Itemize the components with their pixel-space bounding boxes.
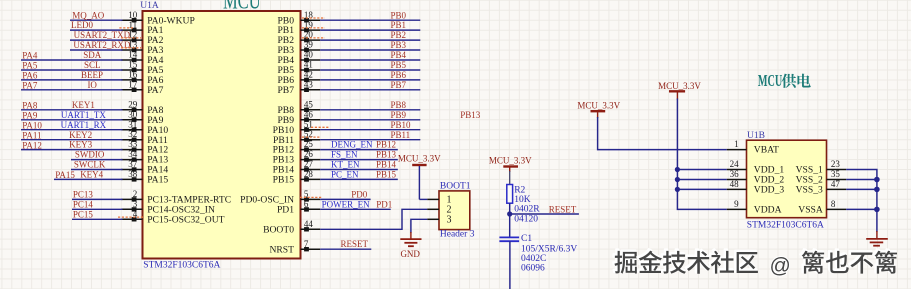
svg-text:MCU_3.3V: MCU_3.3V [658,81,701,91]
svg-text:STM32F103C6T6A: STM32F103C6T6A [747,221,824,231]
U1A pin 29 (PA8) [121,109,142,111]
svg-text:20: 20 [304,30,314,40]
wire + net label RESET (R2/C1) [510,213,579,215]
svg-text:BEEP: BEEP [81,70,103,80]
svg-text:PA15: PA15 [147,175,168,186]
svg-text:Header 3: Header 3 [440,229,475,239]
svg-text:MCU_3.3V: MCU_3.3V [489,156,532,166]
wire + net label PB3 [320,49,420,51]
svg-text:LED0: LED0 [71,20,93,30]
svg-text:VDDA: VDDA [754,205,782,216]
U1A pin 3 (PC14-OSC32_IN) [121,208,142,210]
svg-text:MQ_AO: MQ_AO [72,10,105,20]
svg-text:3: 3 [447,214,452,225]
wire + net label PB8 [320,109,420,111]
svg-text:PA5: PA5 [22,61,38,71]
svg-text:14: 14 [128,50,138,60]
svg-text:RESET: RESET [341,239,369,249]
svg-text:46: 46 [304,109,314,119]
svg-text:U1A: U1A [140,1,159,11]
wire VDD_1 + junction [677,169,726,171]
U1A pin 15 (PA5) [121,69,142,71]
wire VDD_3 + junction [677,188,726,190]
svg-text:36: 36 [730,169,740,179]
U1A pin 5 (PD0-OSC_IN) [301,198,321,200]
svg-text:PA12: PA12 [22,140,42,150]
wire + net label BEEP [21,79,123,81]
U1A pin 42 (PB6) [301,79,321,81]
U1A pin 30 (PA9) [121,119,142,121]
U1A pin 12 (PA2) [121,39,142,41]
U1A pin 31 (PA10) [121,129,142,131]
wire + net label SCL [21,69,123,71]
svg-text:VDD_3: VDD_3 [754,185,785,196]
error squiggle at y=127 [311,126,330,128]
svg-text:105/X5R/6.3V: 105/X5R/6.3V [521,244,577,254]
svg-text:42: 42 [304,70,313,80]
error squiggle at y=217 [118,216,144,218]
junction node RESET [507,211,512,216]
U1A pin 26 (PB13) [301,159,321,161]
BOOT1 pin 2 [427,208,439,210]
wire power to R2 [509,171,511,185]
svg-text:SDA: SDA [83,50,102,60]
svg-text:0402C: 0402C [521,254,546,264]
component U1A body [143,11,301,259]
title MCU [223,0,261,14]
svg-text:PB10: PB10 [391,120,412,130]
svg-text:PB15: PB15 [273,175,295,186]
error squiggle at y=48 [121,47,141,49]
svg-text:17: 17 [128,79,138,89]
U1A pin 41 (PB5) [301,69,321,71]
svg-text:7: 7 [304,239,309,249]
error squiggle at y=38 [302,37,325,39]
resistor R2 [507,185,513,204]
svg-text:24: 24 [730,159,740,169]
wire + net labels PC_EN / PB15 [320,178,398,180]
svg-text:PC13: PC13 [73,190,94,200]
svg-text:32: 32 [128,129,137,139]
svg-text:PC14: PC14 [73,199,94,209]
U1B pin 23 (VSS_1) [827,169,847,171]
U1A pin 2 (PC13-TAMPER-RTC) [121,198,142,200]
svg-text:44: 44 [304,219,314,229]
svg-text:06096: 06096 [521,263,545,273]
svg-text:R2: R2 [514,185,525,195]
wire + net label SDA [21,59,123,61]
watermark [613,249,635,272]
U1A pin 14 (PA4) [121,59,142,61]
svg-text:VBAT: VBAT [754,145,779,156]
U1A pin 46 (PB9) [301,119,321,121]
svg-text:47: 47 [831,179,841,189]
svg-text:18: 18 [304,10,314,20]
svg-text:19: 19 [304,20,314,30]
U1B pin 47 (VSS_3) [827,188,847,190]
U1A pin 45 (PB8) [301,109,321,111]
svg-text:PB11: PB11 [391,130,411,140]
svg-text:26: 26 [304,149,314,159]
U1A pin 6 (PD1) [301,208,321,210]
svg-text:C1: C1 [521,234,532,244]
wire + net label USART2_TXD [70,39,123,41]
ground GND under BOOT1 [410,232,412,239]
svg-text:38: 38 [128,169,138,179]
wire VSS rail [846,170,877,233]
wire + net label USART2_RXD [70,49,123,51]
svg-text:PD0: PD0 [351,190,368,200]
svg-text:MCU_3.3V: MCU_3.3V [398,154,441,164]
U1A pin 25 (PB12) [301,149,321,151]
wire + net label KEY3 [21,149,123,151]
svg-text:DENG_EN: DENG_EN [331,140,373,150]
ground (right rail) [876,231,878,239]
wire + net label UART1_RX [21,129,123,131]
svg-text:PA7: PA7 [147,85,163,96]
svg-text:KEY1: KEY1 [72,100,95,110]
U1A pin 33 (PA12) [121,149,142,151]
wire + net labels FS_EN / PB13 [320,159,398,161]
wire + net label KEY2 [21,139,123,141]
svg-text:34: 34 [128,149,138,159]
U1A pin 13 (PA3) [121,49,142,51]
svg-text:PB2: PB2 [391,30,407,40]
error squiggle at y=137 [302,136,321,138]
BOOT1 pin 1 [427,198,439,200]
U1A pin 18 (PB0) [301,19,321,21]
svg-text:PC15: PC15 [73,209,94,219]
U1A pin 52 (PB11) [301,139,321,141]
wire + net labels POWER_EN / PD1 [320,208,391,210]
U1A pin 10 (PA0-WKUP) [121,19,142,21]
component U1B body [747,140,827,218]
svg-text:PA10: PA10 [22,120,42,130]
svg-text:PB15: PB15 [376,170,397,180]
wire VSS branch + junction [846,179,877,181]
wire VDD rail [677,99,726,210]
svg-text:23: 23 [831,159,841,169]
U1A pin 34 (PA13) [121,159,142,161]
error squiggle at y=38 [121,37,141,39]
svg-text:48: 48 [730,179,740,189]
error squiggle at y=197 [300,196,322,198]
svg-text:30: 30 [128,109,138,119]
wire + net label PB6 [320,79,420,81]
svg-text:PB13: PB13 [376,150,397,160]
svg-text:PB9: PB9 [391,110,407,120]
U1A pin 11 (PA1) [121,29,142,31]
capacitor C1 [499,236,519,238]
U1B pin 48 (VDD_3) [727,188,747,190]
U1A pin 7 (NRST) [301,248,321,250]
svg-text:PB3: PB3 [391,40,407,50]
svg-text:45: 45 [304,99,314,109]
svg-text:RESET: RESET [549,204,577,214]
svg-text:PA6: PA6 [22,71,38,81]
U1B pin 35 (VSS_2) [827,179,847,181]
svg-text:9: 9 [734,199,739,209]
svg-text:04120: 04120 [514,215,538,225]
svg-text:39: 39 [304,40,314,50]
svg-text:3: 3 [133,199,138,209]
svg-text:0402R: 0402R [514,205,540,215]
svg-text:USART2_RXD: USART2_RXD [73,40,130,50]
svg-text:PC_EN: PC_EN [331,170,359,180]
svg-text:SCL: SCL [84,60,101,70]
svg-text:PB14: PB14 [376,160,397,170]
svg-text:NRST: NRST [269,244,294,255]
wire MCU_3.3V to BOOT1 pin1 [419,198,427,200]
U1B pin 36 (VDD_2) [727,179,747,181]
wire + net label PC14 [72,208,123,210]
U1A pin 4 (PC15-OSC32_OUT) [121,218,142,220]
svg-text:PB1: PB1 [391,20,407,30]
wire + net label PC15 [72,218,123,220]
U1B pin 9 (VDDA) [727,208,747,210]
wire + net label SWDIO [71,159,123,161]
svg-text:POWER_EN: POWER_EN [322,199,370,209]
svg-text:MCU_3.3V: MCU_3.3V [577,100,620,110]
svg-text:PA15: PA15 [55,170,75,180]
svg-text:MCU: MCU [758,73,782,91]
svg-text:KEY3: KEY3 [69,140,92,150]
U1A pin 43 (PB7) [301,89,321,91]
svg-text:PC15-OSC32_OUT: PC15-OSC32_OUT [147,214,224,225]
svg-text:PB5: PB5 [391,60,407,70]
BOOT1 pin 3 [427,218,439,220]
svg-text:6: 6 [304,199,309,209]
wire + net label PB11 [320,139,420,141]
U1A pin 32 (PA11) [121,139,142,141]
wire + net label PB10 [320,129,420,131]
svg-text:PD1: PD1 [376,199,392,209]
svg-text:PB7: PB7 [277,85,294,96]
U1A pin 19 (PB1) [301,29,321,31]
svg-text:8: 8 [831,199,836,209]
svg-text:PA4: PA4 [22,51,38,61]
svg-text:15: 15 [128,60,138,70]
error squiggle at y=18 [302,17,325,19]
svg-text:PB4: PB4 [391,50,407,60]
wire VSS branch + junction [846,188,877,190]
svg-text:PB8: PB8 [391,100,407,110]
wire R2 to junction to C1 [509,203,511,236]
wire + net labels KT_EN / PB14 [320,169,398,171]
title MCU supply (MCU Gong Dian) [758,73,782,91]
svg-text:25: 25 [304,139,314,149]
svg-text:PB7: PB7 [391,80,407,90]
wire + net label PB0 [320,19,420,21]
U1B pin 1 (VBAT) [727,149,747,151]
wire + net label PB5 [320,69,420,71]
wire + net label PB2 [320,39,420,41]
svg-text:UART1_RX: UART1_RX [61,120,107,130]
svg-text:PA8: PA8 [22,101,38,111]
wire + net label KEY1 [21,109,123,111]
svg-text:IO: IO [87,80,97,90]
svg-text:35: 35 [831,169,841,179]
U1A pin 16 (PA6) [121,79,142,81]
U1A pin 44 (BOOT0) [301,228,321,230]
svg-text:KEY4: KEY4 [80,170,103,180]
U1A pin 40 (PB4) [301,59,321,61]
svg-text:SWDIO: SWDIO [75,150,105,160]
svg-text:STM32F103C6T6A: STM32F103C6T6A [143,260,220,270]
wire + net label PB7 [320,89,420,91]
svg-text:41: 41 [304,60,313,70]
wire + net label KEY4 [54,178,123,180]
svg-text:43: 43 [304,79,314,89]
U1A pin 51 (PB10) [301,129,321,131]
svg-text:27: 27 [304,159,314,169]
svg-text:BOOT1: BOOT1 [440,182,471,192]
wire + net label RESET (NRST) [320,248,371,250]
svg-text:@: @ [770,255,791,278]
svg-text:31: 31 [128,119,137,129]
U1B pin 24 (VDD_1) [727,169,747,171]
wire + net label SWCLK [71,169,123,171]
wire + net label PB9 [320,119,420,121]
wire VSS branch + junction [846,208,877,210]
svg-text:PB13: PB13 [460,110,481,120]
svg-text:33: 33 [128,139,138,149]
wire C1 down [509,241,511,289]
error squiggle at y=28 [119,27,133,29]
svg-text:37: 37 [128,159,138,169]
svg-text:UART1_TX: UART1_TX [61,110,106,120]
svg-text:29: 29 [128,99,138,109]
svg-text:BOOT0: BOOT0 [263,224,294,235]
svg-text:MCU: MCU [223,0,261,14]
svg-text:KT_EN: KT_EN [331,160,360,170]
svg-text:40: 40 [304,50,314,60]
wire + net label PC13 [72,198,123,200]
svg-text:PB0: PB0 [391,10,407,20]
svg-text:VSSA: VSSA [798,205,823,216]
svg-text:VSS_3: VSS_3 [796,185,823,196]
wire + net labels DENG_EN / PB12 [320,149,398,151]
svg-text:USART2_TXD: USART2_TXD [74,30,131,40]
wire + net label LED0 [70,29,123,31]
svg-text:PA7: PA7 [22,81,38,91]
wire + net label PD0 [320,198,370,200]
svg-text:PA9: PA9 [22,111,38,121]
U1A pin 17 (PA7) [121,89,142,91]
svg-text:FS_EN: FS_EN [331,150,358,160]
wire + net label PB4 [320,59,420,61]
svg-text:PB6: PB6 [391,70,407,80]
U1A pin 39 (PB3) [301,49,321,51]
wire BOOT1 pin3 to GND [411,219,427,233]
svg-text:10: 10 [128,10,138,20]
U1A pin 28 (PB15) [301,178,321,180]
wire + net label UART1_TX [21,119,123,121]
connector BOOT1 (Header 3) body [439,191,470,230]
error squiggle at y=28 [302,27,325,29]
svg-text:U1B: U1B [747,131,765,141]
svg-text:SWCLK: SWCLK [74,160,106,170]
svg-text:KEY2: KEY2 [69,130,92,140]
wire + net label MQ_AO [70,19,123,21]
svg-text:1: 1 [734,139,739,149]
wire VBAT [598,117,727,150]
U1A pin 37 (PA14) [121,169,142,171]
wire + net label PB1 [320,29,420,31]
svg-text:PA11: PA11 [22,130,41,140]
U1A pin 27 (PB14) [301,169,321,171]
wire + net label IO [21,89,123,91]
svg-text:2: 2 [133,189,138,199]
svg-text:16: 16 [128,70,138,80]
U1A pin 38 (PA15) [121,178,142,180]
U1A pin 20 (PB2) [301,39,321,41]
U1B pin 8 (VSSA) [827,208,847,210]
svg-text:PB12: PB12 [376,140,396,150]
wire BOOT0 to header pin2 [320,209,427,229]
svg-text:GND: GND [400,249,420,259]
wire VDD_2 + junction [677,179,726,181]
svg-text:28: 28 [304,169,314,179]
svg-text:PD1: PD1 [277,204,294,215]
